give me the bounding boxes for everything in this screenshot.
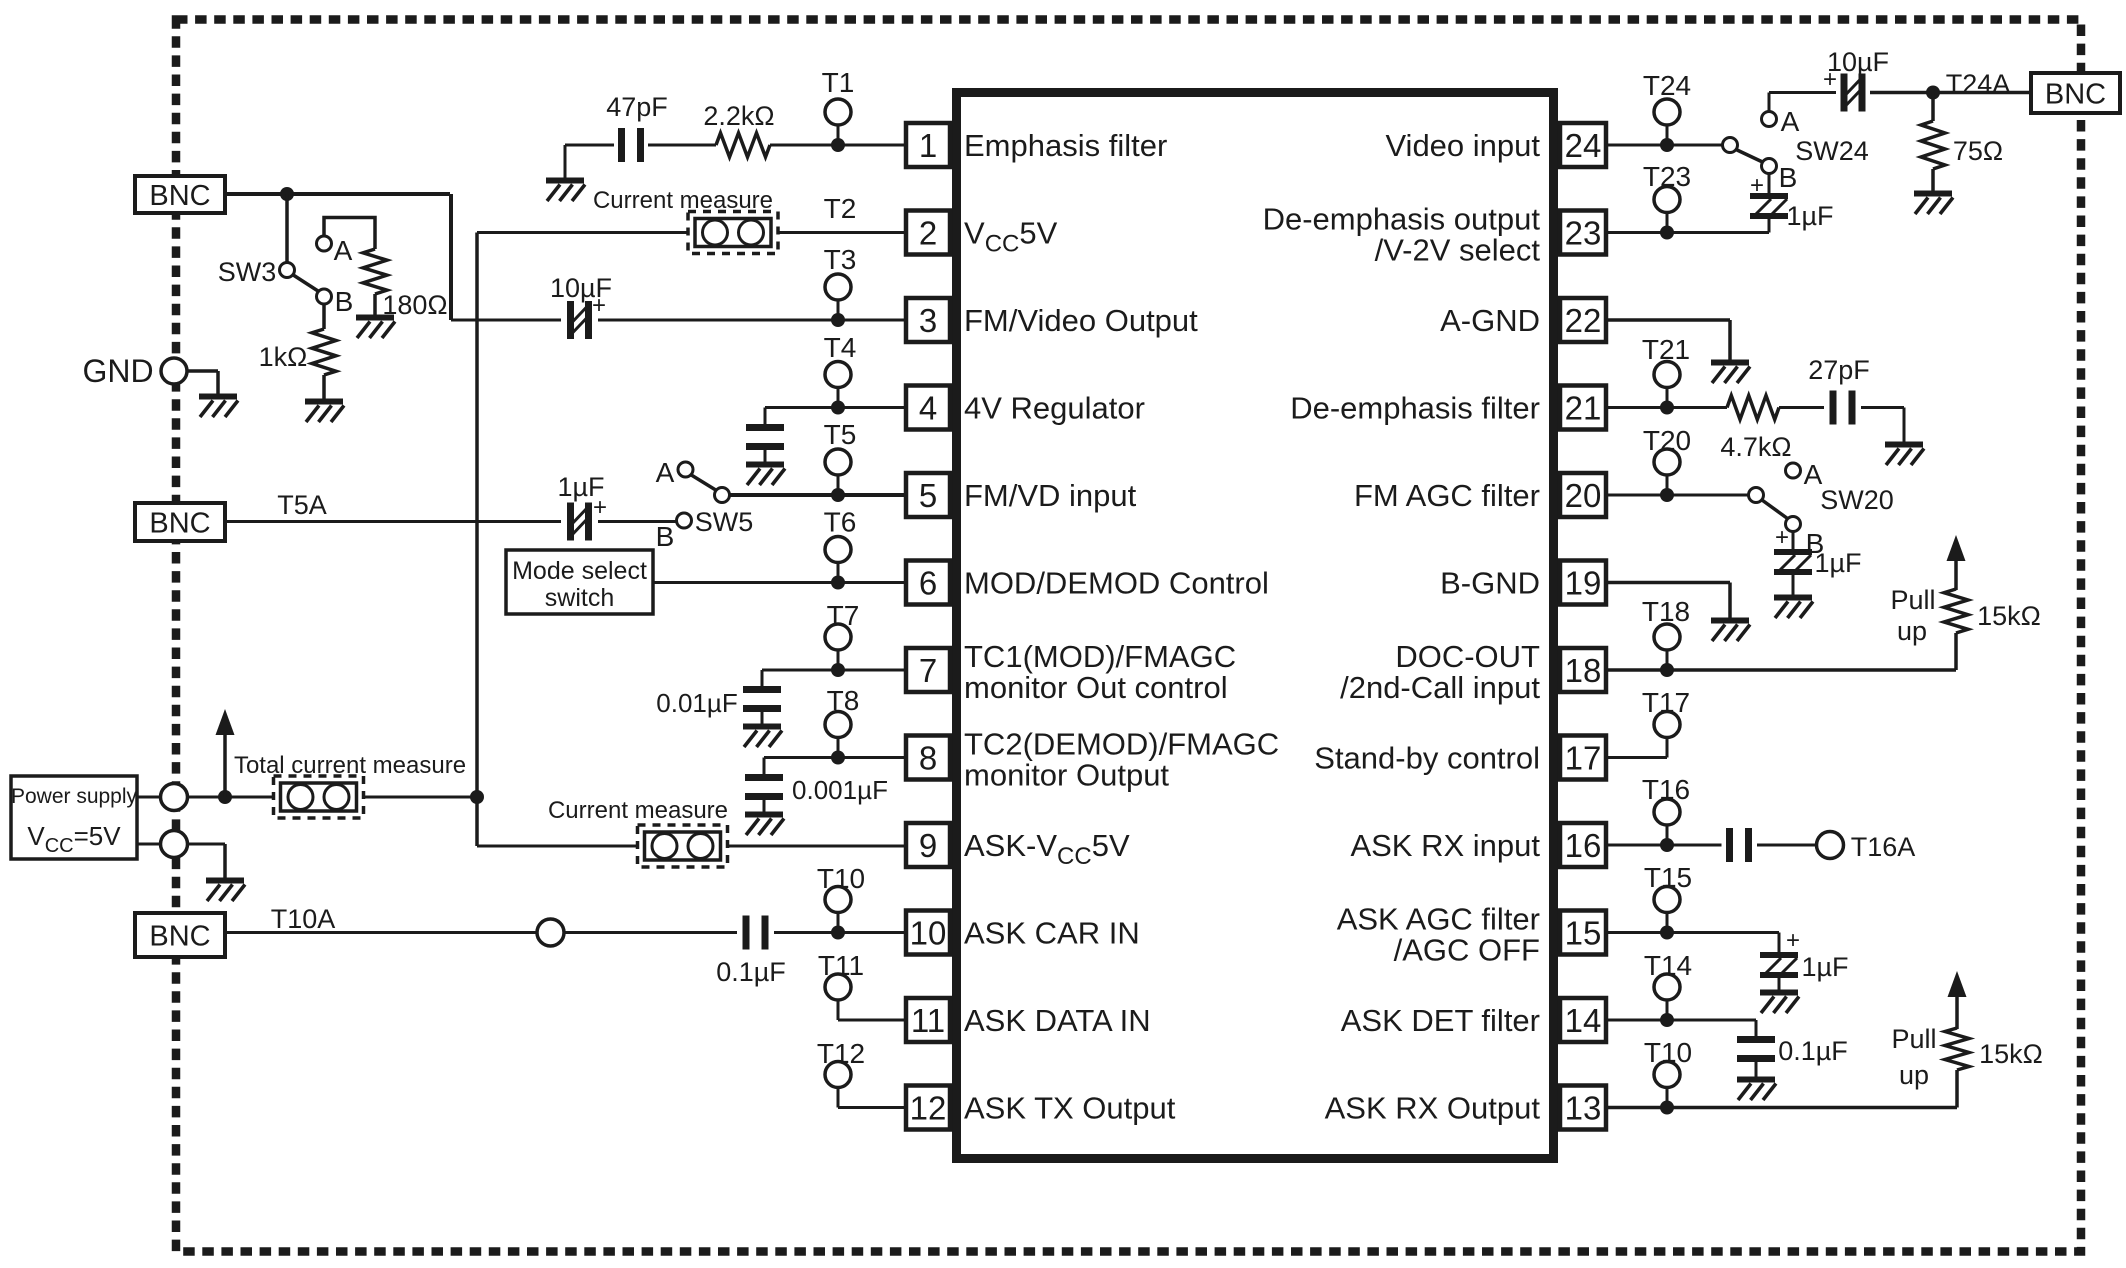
svg-text:20: 20 bbox=[1565, 477, 1602, 514]
svg-text:T8: T8 bbox=[827, 685, 860, 716]
svg-text:T1: T1 bbox=[822, 67, 855, 98]
label 15k&#937; (pin13) bbox=[1979, 1039, 2043, 1069]
svg-text:SW24: SW24 bbox=[1795, 136, 1869, 166]
label T11 bbox=[818, 950, 864, 981]
wire 0.1uF to ground (pin14) bbox=[1755, 1062, 1758, 1077]
label 0.01uF bbox=[656, 688, 737, 718]
pin box 23 bbox=[1560, 211, 1606, 255]
switch SW3 position A bbox=[317, 236, 332, 251]
label A (SW3) bbox=[334, 235, 353, 266]
label T2 bbox=[824, 193, 857, 224]
wire pin19 to ground bbox=[1608, 583, 1730, 619]
label A (SW5) bbox=[656, 457, 675, 488]
wire 4.7k to 27pF bbox=[1779, 406, 1824, 409]
wire pin11 bbox=[838, 1019, 906, 1022]
wire pin18 to pull-up bbox=[1608, 633, 1956, 670]
svg-text:7: 7 bbox=[919, 652, 937, 689]
pin 9 label ASK-Vcc5V bbox=[964, 828, 1130, 870]
capacitor 1uF (SW20 B, polarized) bbox=[1774, 552, 1812, 572]
test point T4 bbox=[825, 362, 851, 408]
jumper Current measure (pin9) bbox=[638, 825, 728, 867]
test point T16 bbox=[1654, 799, 1680, 845]
pin 7 label TC1(MOD)/FMAGC bbox=[964, 639, 1236, 705]
wire pin7 bbox=[762, 669, 906, 672]
label T10 bbox=[817, 863, 865, 894]
svg-text:15kΩ: 15kΩ bbox=[1977, 601, 2041, 631]
capacitor 0.01uF bbox=[743, 690, 781, 709]
svg-text:2.2kΩ: 2.2kΩ bbox=[703, 101, 774, 131]
test point T6 bbox=[825, 537, 851, 583]
svg-text:8: 8 bbox=[919, 740, 937, 777]
svg-text:FM/Video Output: FM/Video Output bbox=[964, 303, 1198, 338]
svg-text:T15: T15 bbox=[1644, 862, 1692, 893]
wire GND terminal bbox=[188, 371, 219, 394]
pin 11 label ASK DATA IN bbox=[964, 1003, 1151, 1038]
wire jumper to pin9 bbox=[727, 845, 906, 848]
svg-text:T20: T20 bbox=[1643, 425, 1691, 456]
label T14 bbox=[1644, 950, 1692, 981]
label Pull up (pin13) bbox=[1891, 1024, 1936, 1090]
svg-text:+: + bbox=[1775, 524, 1789, 551]
label 1uF (pin15) bbox=[1801, 952, 1848, 982]
svg-text:11: 11 bbox=[911, 1002, 945, 1039]
svg-text:Current measure: Current measure bbox=[593, 187, 773, 214]
label T24A bbox=[1946, 69, 2011, 99]
label T1 bbox=[822, 67, 855, 98]
junction pin20/T20 bbox=[1660, 488, 1674, 502]
resistor 2.2k&#937; bbox=[716, 133, 770, 157]
svg-text:SW3: SW3 bbox=[218, 257, 277, 287]
svg-text:GND: GND bbox=[82, 353, 153, 389]
pin box 22 bbox=[1560, 298, 1606, 342]
svg-text:ASK RX Output: ASK RX Output bbox=[1325, 1091, 1541, 1126]
switch SW24 common pole bbox=[1723, 138, 1738, 153]
resistor 4.7k&#937; bbox=[1727, 396, 1779, 420]
junction pin4/T4 bbox=[831, 401, 845, 415]
svg-text:2: 2 bbox=[919, 215, 937, 252]
resistor 75&#937; bbox=[1921, 121, 1945, 169]
capacitor 1uF (T5A, polarized) bbox=[571, 503, 589, 541]
svg-text:ASK AGC filter: ASK AGC filter bbox=[1337, 902, 1540, 937]
label T8 bbox=[827, 685, 860, 716]
svg-text:24: 24 bbox=[1565, 127, 1602, 164]
resistor 15k&#937; (pin13 pull up) bbox=[1945, 1028, 1969, 1070]
BNC connector (bottom) bbox=[135, 913, 225, 957]
pin box 16 bbox=[1560, 823, 1606, 867]
junction pin24/T24 bbox=[1660, 138, 1674, 152]
junction T24A bbox=[1926, 86, 1940, 100]
svg-text:15: 15 bbox=[1565, 915, 1602, 952]
label 1uF (SW24) bbox=[1786, 201, 1833, 231]
label 75&#937; bbox=[1953, 136, 2003, 166]
svg-text:10: 10 bbox=[910, 915, 947, 952]
switch SW20 position B bbox=[1786, 517, 1801, 532]
label T17 bbox=[1642, 687, 1690, 718]
svg-text:FM AGC filter: FM AGC filter bbox=[1354, 478, 1540, 513]
svg-text:T7: T7 bbox=[827, 600, 860, 631]
svg-text:A: A bbox=[656, 457, 675, 488]
wire pin24 to SW24 bbox=[1608, 144, 1723, 147]
junction pin16/T16 bbox=[1660, 838, 1674, 852]
pin box 15 bbox=[1560, 911, 1606, 955]
label + (pin15 1uF) bbox=[1786, 927, 1800, 954]
wire power supply plus bbox=[137, 796, 274, 799]
wire 1uF to ground (pin15) bbox=[1778, 975, 1781, 990]
wire pin2 Vcc to jumper bbox=[477, 231, 906, 234]
svg-text:T14: T14 bbox=[1644, 950, 1692, 981]
junction pin21/T21 bbox=[1660, 401, 1674, 415]
svg-text:BNC: BNC bbox=[149, 180, 210, 212]
ground (pin4) bbox=[746, 465, 785, 486]
svg-text:ASK DET filter: ASK DET filter bbox=[1341, 1003, 1540, 1038]
svg-text:De-emphasis output: De-emphasis output bbox=[1263, 202, 1541, 237]
label T4 bbox=[824, 332, 857, 363]
label SW3 bbox=[218, 257, 277, 287]
wire pin14 bbox=[1608, 1020, 1756, 1036]
svg-text:Pull: Pull bbox=[1890, 585, 1935, 615]
svg-text:T10: T10 bbox=[817, 863, 865, 894]
jumper Total current measure bbox=[274, 776, 364, 818]
svg-text:4V Regulator: 4V Regulator bbox=[964, 391, 1145, 426]
svg-text:Power supply: Power supply bbox=[11, 785, 138, 808]
pin box 5 bbox=[906, 473, 950, 517]
svg-text:+: + bbox=[1823, 66, 1837, 93]
svg-text:0.01µF: 0.01µF bbox=[656, 688, 737, 718]
label + (pin3 cap) bbox=[592, 292, 606, 319]
Vcc arrow up bbox=[216, 709, 235, 797]
wire pin8 bbox=[764, 756, 906, 759]
pin box 6 bbox=[906, 561, 950, 605]
wire pin20 to SW20 bbox=[1608, 494, 1749, 497]
svg-text:FM/VD input: FM/VD input bbox=[964, 478, 1137, 513]
label T3 bbox=[824, 244, 857, 275]
wire Vcc rail to jumper (pin9) bbox=[477, 845, 638, 848]
svg-text:T12: T12 bbox=[817, 1038, 865, 1069]
svg-text:ASK CAR IN: ASK CAR IN bbox=[964, 916, 1140, 951]
test point T12 bbox=[825, 1062, 851, 1108]
svg-text:TC2(DEMOD)/FMAGC: TC2(DEMOD)/FMAGC bbox=[964, 727, 1279, 762]
wire 1kohm to ground bbox=[322, 375, 326, 399]
capacitor 10uF (SW24, polarized) bbox=[1844, 74, 1862, 112]
label 1uF (T5A) bbox=[557, 472, 604, 502]
svg-text:19: 19 bbox=[1565, 565, 1602, 602]
pin 18 label DOC-OUT bbox=[1340, 639, 1540, 705]
junction pin18/T18 bbox=[1660, 663, 1674, 677]
pin 1 label Emphasis filter bbox=[964, 128, 1167, 163]
wire pin7 cap drop bbox=[761, 670, 764, 686]
svg-text:B: B bbox=[335, 286, 354, 317]
junction pin14/T14 bbox=[1660, 1013, 1674, 1027]
label Total current measure bbox=[234, 752, 466, 779]
capacitor 0.1uF (pin14) bbox=[1737, 1040, 1775, 1059]
pin box 10 bbox=[906, 911, 950, 955]
wire BNC1 to pin3 drop bbox=[225, 192, 450, 196]
wire 180ohm to ground bbox=[373, 294, 377, 315]
wire 1uF to ground (SW20) bbox=[1792, 572, 1795, 595]
svg-text:T2: T2 bbox=[824, 193, 857, 224]
wire 0.01uF to ground bbox=[761, 712, 764, 724]
svg-text:MOD/DEMOD Control: MOD/DEMOD Control bbox=[964, 566, 1269, 601]
svg-text:15kΩ: 15kΩ bbox=[1979, 1039, 2043, 1069]
wire 1uF to SW5 B bbox=[598, 520, 677, 523]
pin box 8 bbox=[906, 736, 950, 780]
arrow pull up (pin13) bbox=[1948, 971, 1967, 1029]
test point T7 bbox=[825, 624, 851, 670]
pin 19 label B-GND bbox=[1440, 566, 1540, 601]
svg-text:T16A: T16A bbox=[1851, 832, 1916, 862]
pin 20 label FM AGC filter bbox=[1354, 478, 1540, 513]
svg-text:ASK TX Output: ASK TX Output bbox=[964, 1091, 1176, 1126]
ground (power supply) bbox=[206, 881, 245, 902]
svg-text:BNC: BNC bbox=[2045, 79, 2106, 111]
svg-text:ASK RX input: ASK RX input bbox=[1350, 828, 1540, 863]
ground (pin14 0.1uF) bbox=[1737, 1080, 1776, 1101]
label T18 bbox=[1642, 596, 1690, 627]
label SW5 bbox=[695, 507, 754, 537]
junction pin10/T10 bbox=[831, 926, 845, 940]
wire pin3 left segment bbox=[451, 194, 561, 320]
label 1k&#937; bbox=[259, 342, 308, 372]
pin box 13 bbox=[1560, 1086, 1606, 1130]
pin box 9 bbox=[906, 823, 950, 867]
label Pull up (pin18) bbox=[1890, 585, 1935, 646]
label T24 bbox=[1643, 70, 1691, 101]
wire pin17 bbox=[1608, 738, 1667, 758]
ground (0.001uF) bbox=[745, 815, 784, 836]
switch SW5 blade bbox=[691, 475, 717, 491]
svg-text:1kΩ: 1kΩ bbox=[259, 342, 308, 372]
wire pin23 bbox=[1608, 231, 1769, 234]
svg-text:T23: T23 bbox=[1643, 161, 1691, 192]
arrow pull up (pin18) bbox=[1947, 535, 1966, 590]
junction pin8/T8 bbox=[831, 751, 845, 765]
svg-text:Emphasis filter: Emphasis filter bbox=[964, 128, 1167, 163]
wire pin4 cap drop bbox=[764, 408, 767, 425]
svg-text:SW20: SW20 bbox=[1820, 485, 1894, 515]
pin 10 label ASK CAR IN bbox=[964, 916, 1140, 951]
resistor 180&#937; bbox=[363, 249, 387, 294]
pin 6 label MOD/DEMOD Control bbox=[964, 566, 1269, 601]
label 0.001uF bbox=[792, 775, 888, 805]
test point T24 bbox=[1654, 99, 1680, 145]
svg-text:T11: T11 bbox=[818, 950, 864, 981]
test point T10 bbox=[825, 887, 851, 933]
label T20 bbox=[1643, 425, 1691, 456]
label + (SW20 1uF) bbox=[1775, 524, 1789, 551]
svg-text:18: 18 bbox=[1565, 652, 1602, 689]
test point T18 bbox=[1654, 624, 1680, 670]
svg-text:T24A: T24A bbox=[1946, 69, 2011, 99]
svg-text:9: 9 bbox=[919, 827, 937, 864]
pin box 24 bbox=[1560, 123, 1606, 167]
pin box 14 bbox=[1560, 998, 1606, 1042]
svg-text:T10: T10 bbox=[1644, 1037, 1692, 1068]
wire pin21 bbox=[1608, 406, 1727, 409]
wire 27pF to ground bbox=[1861, 408, 1904, 443]
label SW20 bbox=[1820, 485, 1894, 515]
svg-text:monitor Out control: monitor Out control bbox=[964, 670, 1228, 705]
svg-text:B: B bbox=[656, 521, 675, 552]
svg-text:SW5: SW5 bbox=[695, 507, 754, 537]
label B (SW24) bbox=[1779, 162, 1798, 193]
ground (47pF) bbox=[546, 181, 585, 202]
ground (pin19 B-GND) bbox=[1711, 621, 1750, 642]
svg-text:1: 1 bbox=[919, 127, 937, 164]
pin 3 label FM/Video Output bbox=[964, 303, 1198, 338]
svg-text:13: 13 bbox=[1565, 1090, 1602, 1127]
svg-text:T3: T3 bbox=[824, 244, 857, 275]
label T6 bbox=[824, 507, 857, 538]
pin 16 label ASK RX input bbox=[1350, 828, 1540, 863]
wire pin8 cap drop bbox=[763, 758, 766, 775]
wire pin12 bbox=[838, 1106, 906, 1109]
test point T5 bbox=[825, 449, 851, 495]
test point T20 bbox=[1654, 449, 1680, 495]
label Current measure (pin2) bbox=[593, 187, 773, 214]
svg-text:4: 4 bbox=[919, 390, 937, 427]
pin box 7 bbox=[906, 648, 950, 692]
svg-text:B-GND: B-GND bbox=[1440, 566, 1540, 601]
wire pin13 to pull-up bbox=[1608, 1070, 1957, 1108]
pin 22 label A-GND bbox=[1440, 303, 1540, 338]
svg-text:21: 21 bbox=[1565, 390, 1602, 427]
wire 47pF to ground riser bbox=[565, 145, 614, 178]
label 27pF bbox=[1808, 355, 1870, 385]
wire pin5 from SW5 bbox=[729, 493, 906, 497]
capacitor 1uF (SW24 B, polarized) bbox=[1750, 196, 1788, 216]
terminal power supply minus bbox=[161, 831, 188, 858]
junction pin5/T5 bbox=[831, 488, 845, 502]
pin 15 label ASK AGC filter bbox=[1337, 902, 1540, 968]
switch SW5 common pole bbox=[715, 488, 730, 503]
switch SW20 blade bbox=[1762, 500, 1788, 519]
wire BNC1 junction to SW3 bbox=[285, 194, 289, 263]
pin box 2 bbox=[906, 211, 950, 255]
junction BNC1/SW3 bbox=[280, 187, 294, 201]
pin 13 label ASK RX Output bbox=[1325, 1091, 1541, 1126]
label 2.2k&#937; bbox=[703, 101, 774, 131]
label 4.7k&#937; bbox=[1720, 432, 1791, 462]
svg-text:A-GND: A-GND bbox=[1440, 303, 1540, 338]
switch SW3 blade bbox=[293, 275, 319, 292]
label A (SW20) bbox=[1804, 459, 1823, 490]
label B (SW20) bbox=[1806, 528, 1825, 559]
svg-text:T16: T16 bbox=[1642, 774, 1690, 805]
resistor 15k&#937; (pin18 pull up) bbox=[1944, 589, 1968, 633]
pin 4 label 4V Regulator bbox=[964, 391, 1145, 426]
wire pin22 to ground bbox=[1608, 320, 1730, 360]
pin 17 label Stand-by control bbox=[1314, 741, 1540, 776]
pin 24 label Video input bbox=[1385, 128, 1540, 163]
label T16 bbox=[1642, 774, 1690, 805]
svg-text:Current measure: Current measure bbox=[548, 797, 728, 824]
junction pin23/T23 bbox=[1660, 226, 1674, 240]
svg-text:DOC-OUT: DOC-OUT bbox=[1395, 639, 1540, 674]
svg-text:14: 14 bbox=[1565, 1002, 1602, 1039]
svg-text:0.1µF: 0.1µF bbox=[1778, 1036, 1848, 1066]
wire pin3 right segment bbox=[598, 319, 906, 322]
switch SW5 position B bbox=[677, 513, 692, 528]
label T10 (pin13) bbox=[1644, 1037, 1692, 1068]
svg-text:up: up bbox=[1897, 616, 1927, 646]
BNC connector (top) bbox=[135, 176, 225, 213]
switch SW20 common pole bbox=[1749, 488, 1764, 503]
wire T24A to 75ohm bbox=[1931, 93, 1935, 122]
svg-text:switch: switch bbox=[545, 584, 614, 612]
ground (SW20 1uF) bbox=[1774, 598, 1813, 619]
box Mode select switch bbox=[506, 550, 653, 614]
svg-text:BNC: BNC bbox=[149, 921, 210, 953]
ground (pin22 A-GND) bbox=[1711, 363, 1750, 384]
label Current measure (pin9) bbox=[548, 797, 728, 824]
test point T1 bbox=[825, 99, 851, 145]
pin box 17 bbox=[1560, 736, 1606, 780]
pin box 18 bbox=[1560, 648, 1606, 692]
pin box 11 bbox=[906, 998, 950, 1042]
label T12 bbox=[817, 1038, 865, 1069]
jumper Current measure (pin2) bbox=[688, 212, 778, 254]
label 180&#937; bbox=[382, 290, 447, 320]
svg-text:monitor Output: monitor Output bbox=[964, 758, 1169, 793]
pin box 20 bbox=[1560, 473, 1606, 517]
svg-text:+: + bbox=[1750, 172, 1764, 199]
switch SW24 position A bbox=[1762, 112, 1777, 127]
wire pin15 bbox=[1608, 933, 1779, 953]
svg-text:16: 16 bbox=[1565, 827, 1602, 864]
capacitor 0.1uF (pin10) bbox=[746, 916, 765, 950]
wire SW24 A up to 10uF bbox=[1769, 93, 1836, 112]
svg-text:1µF: 1µF bbox=[1801, 952, 1848, 982]
label T5 bbox=[824, 419, 857, 450]
test point T10 (pin13) bbox=[1654, 1062, 1680, 1108]
svg-text:6: 6 bbox=[919, 565, 937, 602]
svg-text:75Ω: 75Ω bbox=[1953, 136, 2003, 166]
svg-text:1µF: 1µF bbox=[1786, 201, 1833, 231]
pin 21 label De-emphasis filter bbox=[1290, 391, 1540, 426]
svg-text:47pF: 47pF bbox=[606, 92, 668, 122]
label GND bbox=[82, 353, 153, 389]
capacitor 10uF (pin3, polarized) bbox=[571, 301, 589, 339]
svg-text:Stand-by control: Stand-by control bbox=[1314, 741, 1540, 776]
pin box 4 bbox=[906, 386, 950, 430]
svg-text:1µF: 1µF bbox=[1814, 548, 1861, 578]
test point T11 bbox=[825, 974, 851, 1020]
ground (27pF) bbox=[1885, 445, 1924, 466]
svg-text:/2nd-Call input: /2nd-Call input bbox=[1340, 670, 1540, 705]
svg-text:23: 23 bbox=[1565, 215, 1602, 252]
svg-text:+: + bbox=[592, 292, 606, 319]
svg-text:T5: T5 bbox=[824, 419, 857, 450]
wire cap to T16A bbox=[1757, 844, 1817, 847]
wire power supply minus bbox=[137, 844, 225, 878]
svg-text:12: 12 bbox=[910, 1090, 947, 1127]
test point T15 bbox=[1654, 887, 1680, 933]
pin box 21 bbox=[1560, 386, 1606, 430]
label B (SW5) bbox=[656, 521, 675, 552]
test point T23 bbox=[1654, 187, 1680, 233]
svg-text:0.001µF: 0.001µF bbox=[792, 775, 888, 805]
label A (SW24) bbox=[1781, 106, 1800, 137]
pin 23 label De-emphasis output bbox=[1263, 202, 1541, 268]
switch SW20 position A bbox=[1786, 463, 1801, 478]
wire 1uF to pin23 wire bbox=[1768, 216, 1771, 233]
capacitor 4V-regulator bypass bbox=[746, 428, 784, 447]
wire 10uF to BNC4 bbox=[1870, 91, 2032, 95]
pin box 1 bbox=[906, 123, 950, 167]
ground (75ohm) bbox=[1914, 194, 1953, 215]
svg-text:/AGC OFF: /AGC OFF bbox=[1394, 933, 1540, 968]
label 47pF bbox=[606, 92, 668, 122]
